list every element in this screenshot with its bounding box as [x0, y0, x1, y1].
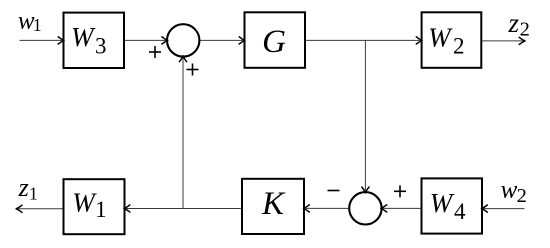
svg-text:3: 3 [95, 33, 107, 58]
svg-text:2: 2 [453, 33, 465, 58]
svg-text:1: 1 [95, 197, 107, 222]
svg-text:G: G [262, 24, 286, 60]
svg-text:1: 1 [29, 183, 38, 203]
svg-text:4: 4 [454, 199, 466, 224]
svg-text:K: K [261, 186, 286, 222]
svg-text:W: W [72, 187, 97, 217]
svg-text:W: W [71, 22, 96, 52]
svg-text:W: W [430, 188, 455, 218]
svg-text:w: w [501, 177, 518, 204]
svg-text:z: z [18, 173, 29, 202]
svg-text:2: 2 [517, 185, 527, 207]
svg-text:W: W [428, 22, 453, 52]
svg-text:1: 1 [33, 15, 42, 35]
svg-text:2: 2 [520, 18, 530, 40]
svg-text:z: z [507, 8, 519, 38]
